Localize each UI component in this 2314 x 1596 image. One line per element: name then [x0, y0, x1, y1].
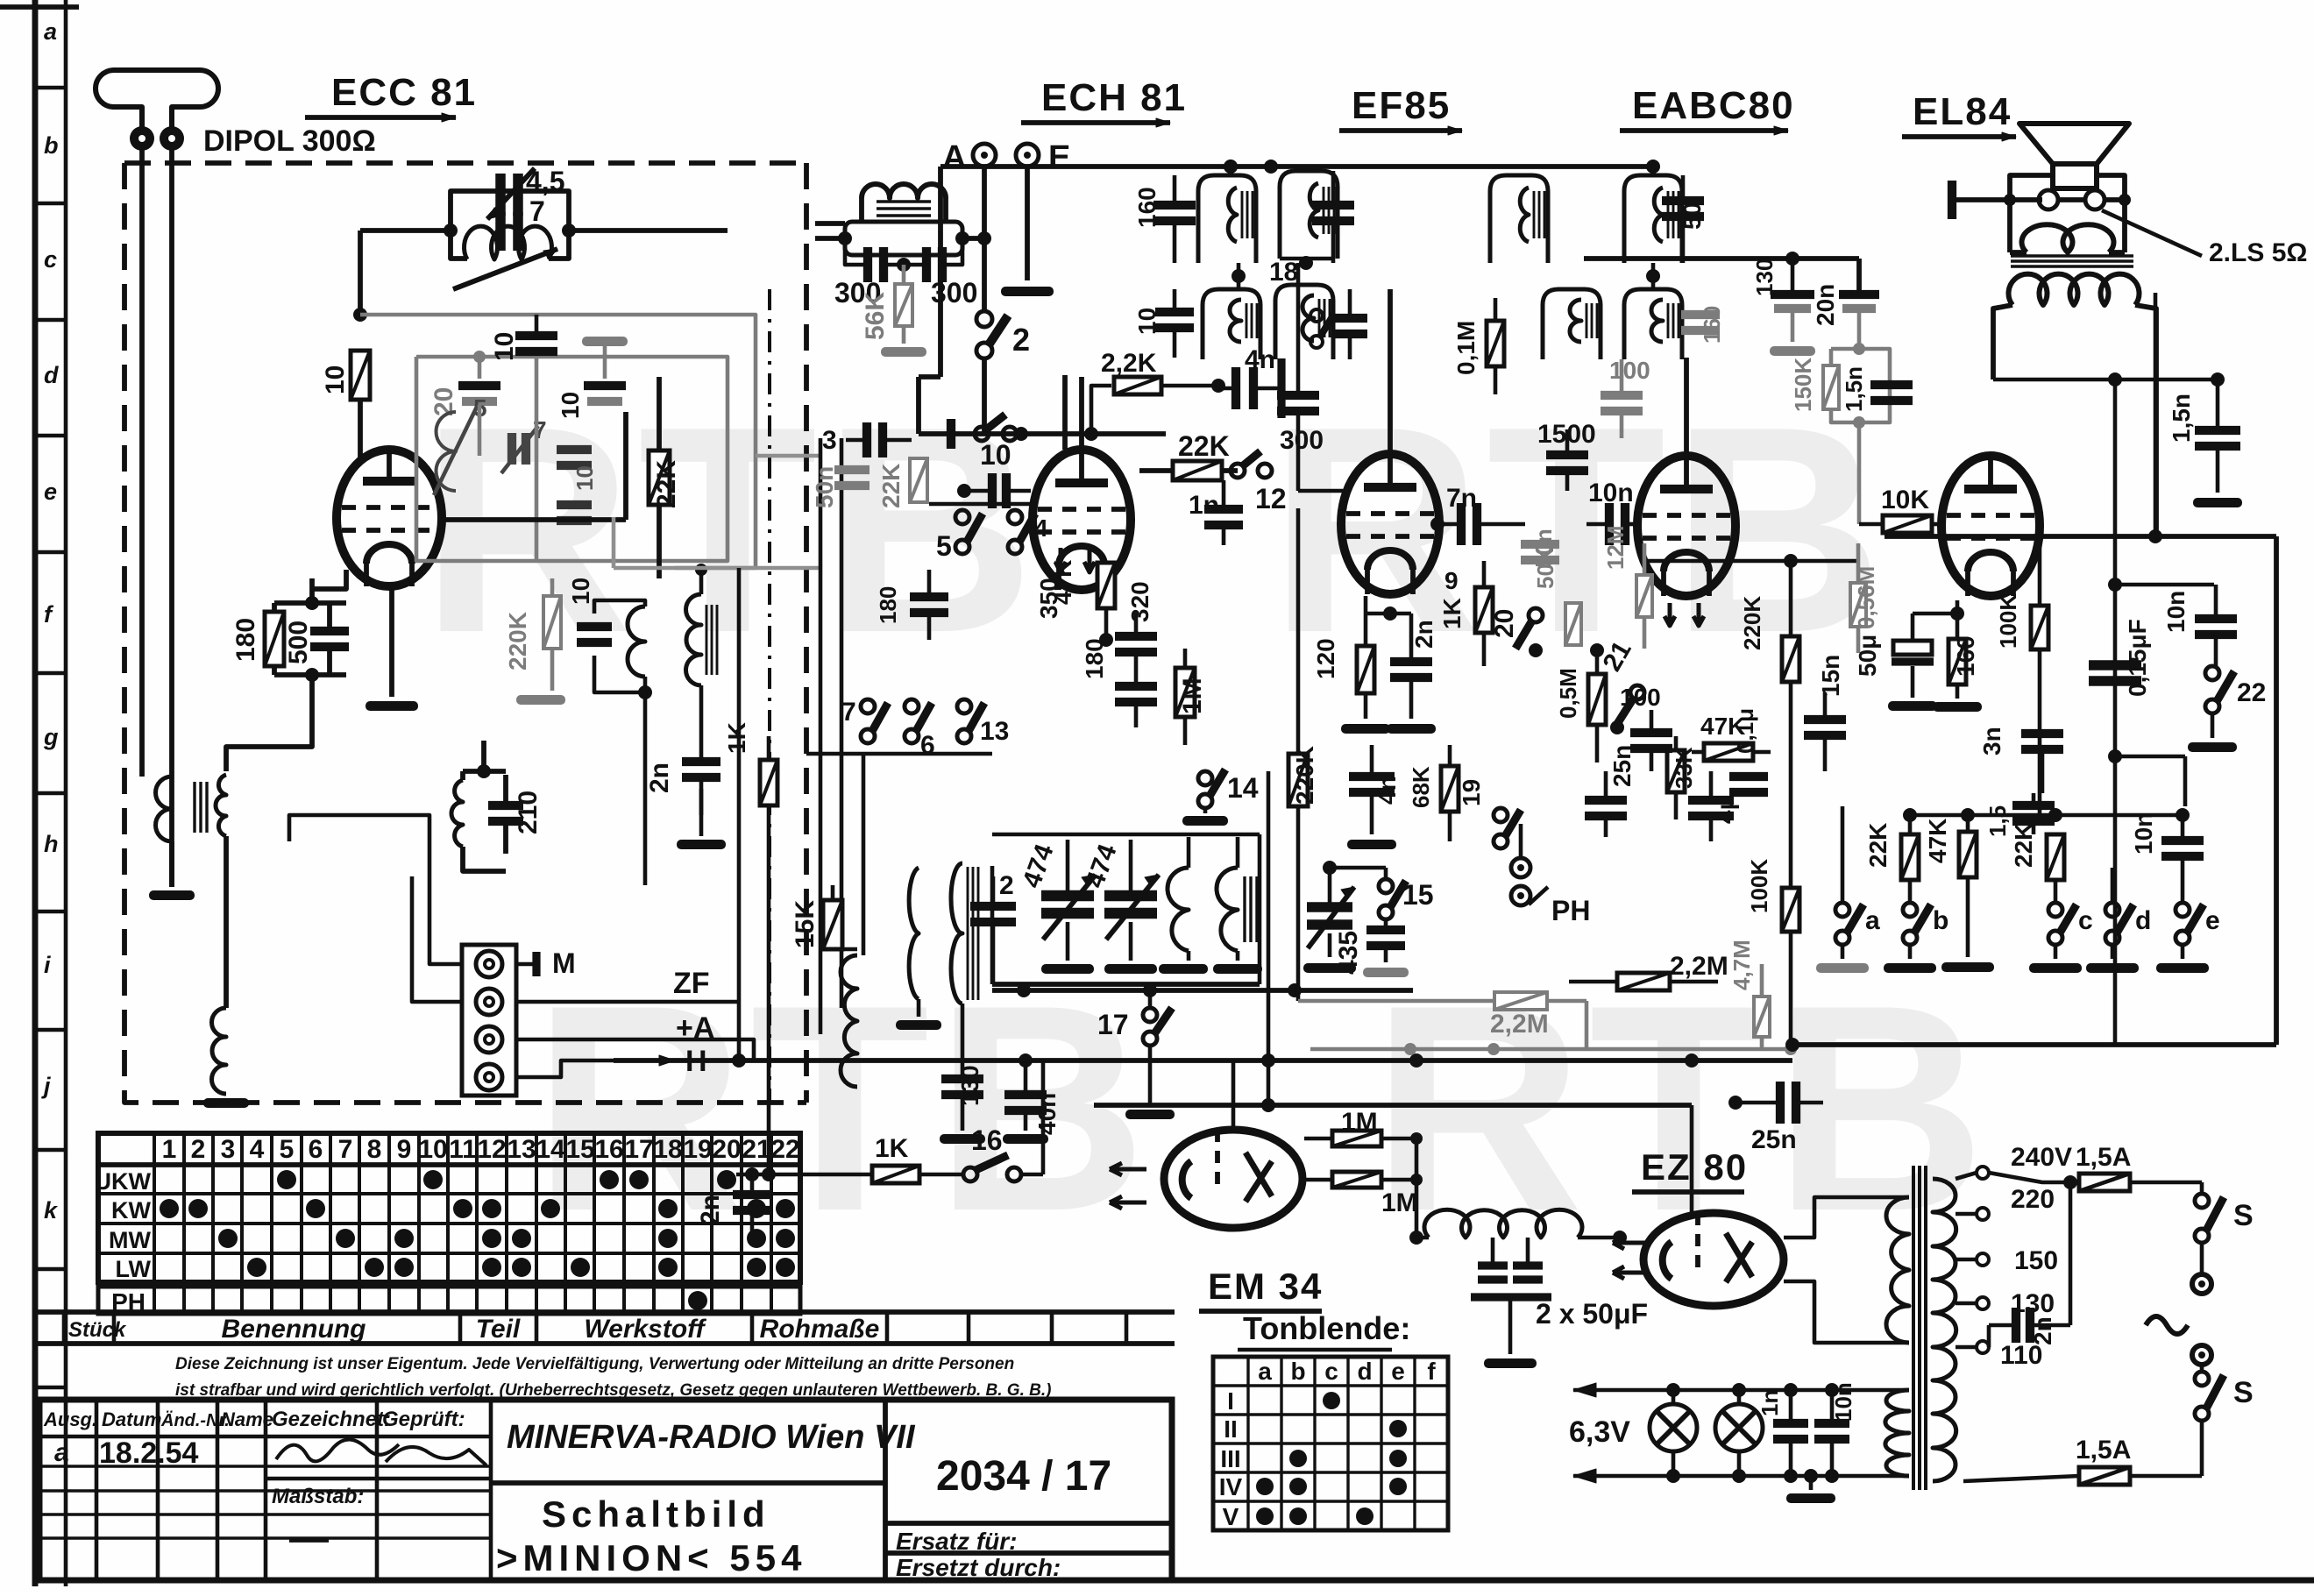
bus 1130 [992, 983, 1413, 997]
svg-text:1,5n: 1,5n [2168, 394, 2195, 443]
svg-text:1M: 1M [1178, 677, 1207, 714]
AM ant coil [862, 184, 946, 216]
ez80 plate loop top [1784, 1197, 1909, 1238]
ez80 to bus [1690, 1105, 1694, 1213]
heater ground [1786, 1469, 1835, 1503]
AM ant box [815, 167, 991, 311]
cap 2n ef [1366, 606, 1437, 734]
dashbox bottom stub [0, 0, 1, 1]
svg-text:1,5A: 1,5A [2076, 1436, 2131, 1465]
svg-text:0,5M: 0,5M [1555, 668, 1581, 719]
svg-text:Änd.-Nr.: Änd.-Nr. [160, 1410, 230, 1430]
IFT wires top [1224, 160, 1310, 289]
svg-text:EABC80: EABC80 [1632, 84, 1795, 127]
svg-text:EM 34: EM 34 [1208, 1266, 1323, 1307]
label H arrow [614, 1045, 707, 1078]
svg-text:7: 7 [841, 698, 856, 727]
gray 50n cap [811, 466, 870, 508]
resistor 1K ef [1438, 561, 1493, 666]
svg-text:d: d [1357, 1358, 1372, 1385]
svg-text:2,2M: 2,2M [1490, 1010, 1549, 1039]
svg-text:2034 / 17: 2034 / 17 [936, 1453, 1111, 1500]
tube ECC81 [337, 450, 442, 586]
resistor 22K top [1139, 430, 1238, 480]
svg-text:10n: 10n [1588, 479, 1634, 507]
svg-text:20n: 20n [1812, 284, 1839, 326]
gray 50n 50K [1521, 528, 1581, 645]
tube EL84 [1941, 456, 2040, 596]
svg-text:3: 3 [221, 1135, 236, 1164]
svg-text:E: E [1048, 139, 1070, 176]
svg-text:5: 5 [280, 1135, 295, 1164]
res 160 el [1933, 614, 1982, 712]
svg-text:6,3V: 6,3V [1569, 1415, 1630, 1449]
tube ECH81 [1033, 450, 1131, 590]
svg-text:>MINION< 554: >MINION< 554 [496, 1537, 806, 1578]
capacitor 500 [284, 603, 349, 675]
svg-text:14: 14 [1227, 772, 1259, 804]
cap 300 a [834, 238, 904, 309]
coil 210 [451, 771, 463, 847]
res 1M b [1304, 1172, 1423, 1217]
svg-text:h: h [44, 831, 59, 857]
black cap 10b [490, 315, 557, 361]
svg-text:EL84: EL84 [1913, 90, 2012, 133]
dipole terminal 1 [130, 126, 154, 151]
svg-text:22K: 22K [652, 460, 681, 508]
osc coil arrow [453, 226, 557, 289]
switch 20 [1490, 608, 1543, 657]
ecc81 cathode wire [312, 570, 346, 589]
IFT1 coil b [1280, 171, 1354, 270]
tank 210 [456, 771, 529, 850]
svg-text:2n: 2n [1410, 620, 1437, 649]
svg-text:2n: 2n [645, 763, 674, 793]
ef85 plate wire [1388, 289, 1393, 454]
tube EZ80 [1643, 1213, 1784, 1306]
IFT3 coil a [1624, 175, 1706, 263]
cap 20n el [1812, 284, 1879, 355]
cap 2n ukw [645, 727, 720, 815]
svg-text:4,7M: 4,7M [1728, 940, 1755, 990]
svg-text:25n: 25n [1608, 745, 1636, 787]
cap 180 pair [1081, 614, 1157, 727]
svg-text:2,2K: 2,2K [1101, 349, 1157, 378]
res 1M a [1304, 1108, 1423, 1146]
resistor 120 [1312, 596, 1390, 734]
cap 100 gray [1601, 357, 1650, 438]
svg-text:Maßstab:: Maßstab: [272, 1485, 364, 1508]
svg-text:17: 17 [624, 1135, 653, 1164]
gray wires ZF [479, 357, 536, 561]
cap 1,5n right [2168, 372, 2242, 507]
svg-text:14: 14 [536, 1135, 565, 1164]
bus 1261 [1094, 1098, 1692, 1112]
svg-text:320: 320 [1126, 581, 1153, 622]
svg-text:10n: 10n [2130, 812, 2157, 855]
svg-text:S: S [2233, 1376, 2254, 1409]
svg-text:e: e [2205, 906, 2220, 935]
svg-text:LW: LW [116, 1256, 152, 1282]
svg-text:7n: 7n [1446, 484, 1477, 513]
el84 cath wires [1913, 600, 1964, 621]
res 2,2M a [1298, 911, 1586, 1049]
svg-text:Benennung: Benennung [222, 1315, 366, 1344]
capacitor 210 [488, 775, 543, 854]
svg-text:0,1M: 0,1M [1452, 321, 1480, 375]
svg-text:Teil: Teil [476, 1315, 521, 1344]
svg-text:100K: 100K [1746, 859, 1772, 913]
svg-text:MINERVA-RADIO Wien VII: MINERVA-RADIO Wien VII [507, 1419, 916, 1456]
cap 40n [1003, 1053, 1061, 1144]
out trafo primary [2009, 274, 2140, 305]
svg-text:a: a [1258, 1358, 1272, 1385]
svg-text:15: 15 [565, 1135, 594, 1164]
svg-text:2: 2 [191, 1135, 206, 1164]
svg-text:220K: 220K [1291, 746, 1318, 805]
svg-text:25n: 25n [1751, 1125, 1797, 1154]
switch 17 [1097, 990, 1175, 1119]
svg-text:3: 3 [822, 426, 837, 455]
wire 180 down [226, 708, 312, 771]
eabc plate wire [1684, 358, 1689, 456]
switch 5 [936, 510, 983, 562]
switch 2 [976, 311, 1030, 358]
ez80 arrows [1613, 1237, 1646, 1279]
svg-text:4: 4 [250, 1135, 265, 1164]
connector pin 3 [476, 1026, 502, 1053]
svg-text:4,5: 4,5 [526, 166, 564, 197]
svg-text:50K: 50K [1532, 547, 1558, 589]
svg-text:Name: Name [221, 1408, 273, 1430]
svg-text:2n: 2n [2029, 1316, 2056, 1345]
label EL84 [1902, 90, 2016, 141]
svg-text:b: b [44, 132, 59, 159]
ground ecc81 [366, 585, 418, 711]
connector pin 4 [476, 1064, 502, 1090]
IFT2 coil b [1269, 258, 1367, 359]
label 6,3V [1569, 1415, 1630, 1449]
svg-text:2.LS 5Ω: 2.LS 5Ω [2209, 238, 2307, 267]
svg-text:S: S [2233, 1199, 2254, 1232]
trimmer 435 [1303, 861, 1363, 975]
wire y640 [1644, 554, 1858, 568]
speaker leader 2.LS [2102, 210, 2307, 267]
svg-text:12M: 12M [1602, 525, 1629, 570]
svg-text:210: 210 [514, 791, 543, 834]
gray trimmer 7 [501, 416, 547, 473]
svg-text:Ersetzt durch:: Ersetzt durch: [896, 1554, 1061, 1581]
svg-text:g: g [43, 724, 59, 750]
voice coil wire [2058, 194, 2131, 206]
svg-text:ECC 81: ECC 81 [331, 71, 477, 114]
svg-text:20: 20 [1490, 609, 1519, 638]
connector left wires [289, 815, 462, 1002]
cap 1n [1189, 480, 1243, 545]
legal notice [175, 1355, 1051, 1400]
grid cap ech [957, 473, 1031, 508]
cap 130 el [1751, 259, 1815, 356]
resistor 180 [231, 603, 284, 675]
svg-text:PH: PH [1551, 895, 1590, 926]
svg-text:II: II [1224, 1415, 1238, 1443]
ech mid grounds [677, 789, 726, 849]
resistor 47K ech [1049, 560, 1115, 647]
wire 10 to tube [358, 400, 363, 465]
svg-text:Werkstoff: Werkstoff [584, 1315, 706, 1344]
svg-text:500: 500 [284, 621, 313, 664]
svg-text:1K: 1K [723, 722, 750, 754]
terminal E [1016, 139, 1070, 176]
svg-text:1M: 1M [1341, 1108, 1378, 1137]
gray res 220K ukw [504, 578, 565, 705]
svg-text:10: 10 [571, 465, 598, 491]
svg-text:EZ 80: EZ 80 [1641, 1146, 1748, 1188]
wire 435 sw15 [1330, 868, 1386, 879]
svg-text:150K: 150K [1790, 358, 1816, 412]
cap 10n r1 [2162, 585, 2237, 666]
svg-text:UKW: UKW [95, 1168, 152, 1195]
IFT2 coil a [1133, 289, 1260, 359]
svg-text:240V: 240V [2011, 1143, 2072, 1172]
out trafo secondary [2010, 221, 2125, 252]
elko 2x50 [1471, 1238, 1648, 1368]
cap 130 [940, 1004, 985, 1144]
cap 180b [875, 570, 948, 640]
gang box [992, 834, 1260, 984]
svg-text:b: b [1290, 1358, 1305, 1385]
osc coil b [1213, 837, 1262, 974]
fuse bottom [1963, 1436, 2202, 1485]
dipole terminal 2 [160, 126, 184, 151]
svg-text:22K: 22K [1864, 823, 1892, 868]
svg-text:1: 1 [162, 1135, 177, 1164]
resistor 56K gray [861, 265, 926, 357]
mains terminal 2 [2192, 1345, 2211, 1365]
label EF85 [1339, 84, 1462, 135]
capacitor 7 [500, 212, 518, 251]
svg-text:68K: 68K [1408, 766, 1434, 808]
cap 0,1u [1729, 708, 1768, 792]
switch d [2086, 868, 2151, 973]
cap 10n e [2130, 812, 2204, 903]
switch 22 [2188, 666, 2266, 752]
switch 15 [1379, 879, 1434, 927]
gray cap 10a [557, 337, 628, 419]
connector pin 2 [476, 989, 502, 1015]
cap 1n heater [1757, 1390, 1808, 1476]
svg-text:300: 300 [1280, 426, 1324, 455]
svg-text:d: d [44, 362, 59, 388]
svg-text:11: 11 [449, 1135, 477, 1164]
svg-text:350: 350 [1035, 578, 1062, 619]
pt core [1913, 1166, 1926, 1490]
wire A down2 [643, 692, 648, 885]
svg-text:e: e [1391, 1358, 1405, 1385]
label EM34 [1199, 1266, 1323, 1311]
svg-text:10K: 10K [1881, 486, 1929, 514]
cap 25n eabc [1585, 745, 1636, 837]
switch b [1884, 903, 1948, 973]
out trafo core [2011, 256, 2133, 266]
svg-text:180: 180 [1081, 638, 1108, 679]
svg-text:4μ: 4μ [1712, 795, 1739, 824]
lamp 2 [1715, 1390, 1763, 1476]
UKW unit dashed box [124, 163, 806, 1103]
cap 100b [1620, 684, 1672, 771]
svg-text:EF85: EF85 [1352, 84, 1451, 127]
svg-text:c: c [2078, 906, 2093, 935]
cap 0,15 [2089, 619, 2151, 697]
svg-text:8: 8 [367, 1135, 382, 1164]
bus 1210 [614, 1053, 1792, 1068]
vertical 1215 [984, 375, 1065, 450]
svg-text:130: 130 [956, 1065, 983, 1106]
osc tank box [451, 191, 569, 259]
label 4,5 [526, 166, 564, 197]
svg-text:10: 10 [490, 332, 519, 361]
cap 4n top [1218, 345, 1281, 418]
svg-text:2 x 50μF: 2 x 50μF [1536, 1298, 1648, 1330]
svg-text:160: 160 [1952, 635, 1979, 677]
svg-text:ECH 81: ECH 81 [1041, 76, 1187, 119]
svg-text:V: V [1223, 1503, 1239, 1530]
svg-text:e: e [44, 479, 57, 505]
res 100K eabc [1746, 859, 1799, 1045]
ech plate wire [1065, 377, 1082, 450]
switch 16 [919, 1060, 1043, 1181]
wire A down [0, 0, 1, 1]
gray 22K res [877, 458, 927, 508]
switch 13 [957, 699, 1009, 746]
vertical 1073 [919, 167, 941, 377]
svg-text:160: 160 [1133, 187, 1161, 228]
resistor 15K [791, 885, 842, 949]
gray bus AVC [1310, 1043, 1797, 1055]
gray cap pair 10 [557, 450, 598, 521]
res 33K [1667, 736, 1697, 819]
resistor 22K (ecc) [649, 377, 681, 578]
svg-text:20: 20 [712, 1135, 741, 1164]
antenna coil ground [149, 836, 226, 900]
res 22K a [1864, 815, 1919, 903]
svg-text:435: 435 [1334, 931, 1363, 975]
top bus A [941, 160, 1653, 174]
svg-text:22K: 22K [1178, 430, 1230, 462]
cap 10n eabc [1586, 479, 1637, 545]
res 10K [1859, 486, 1943, 533]
switch 14 [1182, 770, 1259, 826]
svg-text:0,1μ: 0,1μ [1732, 708, 1758, 754]
svg-text:Diese Zeichnung ist unser Eige: Diese Zeichnung ist unser Eigentum. Jede… [175, 1355, 1014, 1373]
svg-text:12: 12 [1255, 483, 1287, 514]
svg-text:6: 6 [309, 1135, 323, 1164]
PH jacks [1511, 824, 1590, 926]
wire y860 [732, 568, 992, 1068]
svg-text:Ausg.: Ausg. [43, 1408, 97, 1430]
svg-text:19: 19 [1458, 779, 1485, 806]
ez80 plate wire [1784, 1234, 1863, 1259]
svg-text:15: 15 [1402, 879, 1434, 911]
lower coil [203, 885, 249, 1108]
svg-text:16: 16 [971, 1124, 1003, 1156]
svg-text:12: 12 [477, 1135, 506, 1164]
svg-text:Rohmaße: Rohmaße [760, 1315, 880, 1344]
svg-text:18.2.54: 18.2.54 [99, 1436, 199, 1470]
svg-text:A: A [942, 139, 966, 176]
svg-text:47K: 47K [1924, 819, 1951, 863]
svg-text:Tonblende:: Tonblende: [1243, 1310, 1410, 1346]
connector box [462, 945, 516, 1096]
vertical 1447 [1267, 771, 1271, 1105]
svg-text:50μ: 50μ [1854, 635, 1881, 677]
res 220K eabc [1739, 561, 1799, 887]
trimmer 474 b [1081, 840, 1159, 974]
svg-text:10: 10 [567, 578, 594, 605]
svg-text:19: 19 [683, 1135, 712, 1164]
switch S top [2195, 1182, 2254, 1273]
res 1K em [872, 1134, 919, 1183]
svg-text:10: 10 [1133, 308, 1161, 335]
pt HT secondary [1886, 1197, 1909, 1343]
em34 1M verticals [1415, 1138, 1419, 1238]
svg-text:13: 13 [507, 1135, 536, 1164]
el84 grid bus [1584, 252, 1859, 293]
ech mid coils [896, 863, 978, 1030]
watermark [421, 365, 1991, 1272]
wire osc left drop [353, 231, 367, 322]
wire sw2 down [982, 359, 987, 434]
svg-text:IV: IV [1219, 1473, 1243, 1500]
switch a [1816, 806, 1880, 973]
wire gang top [1081, 819, 1189, 840]
cap 4u [1688, 771, 1739, 841]
svg-text:5: 5 [936, 530, 952, 562]
svg-text:2,2M: 2,2M [1670, 952, 1728, 981]
bus mid [919, 377, 1166, 441]
feedback loop [1792, 1045, 1793, 1060]
em34 input arrows [1110, 1163, 1146, 1209]
cap 50u [1854, 614, 1937, 711]
gray res 12M [1602, 525, 1652, 649]
label M [536, 947, 576, 979]
osc big coil [833, 949, 857, 1087]
wire E ground [1001, 167, 1054, 296]
res 2,2K [1091, 349, 1225, 434]
IFT1 coil a [1133, 175, 1256, 263]
cap 7n [1430, 484, 1525, 545]
svg-text:d: d [2135, 906, 2151, 935]
voice coil terminal 1 [2039, 190, 2058, 209]
switch 4 [1008, 510, 1048, 554]
svg-text:1K: 1K [1438, 598, 1466, 629]
svg-text:1K: 1K [875, 1134, 909, 1163]
svg-text:b: b [1933, 906, 1948, 935]
gray coil 5 [434, 394, 487, 495]
svg-text:M: M [552, 947, 576, 979]
svg-text:Stück: Stück [68, 1318, 127, 1342]
svg-text:Schaltbild: Schaltbild [542, 1493, 770, 1535]
lamp 1 [1650, 1390, 1697, 1476]
svg-text:22K: 22K [2010, 823, 2037, 868]
switch 7 [841, 698, 888, 743]
label DIPOL 300 [203, 124, 376, 158]
filter choke [1409, 1209, 1627, 1245]
label 350 [1035, 578, 1062, 619]
cathode network box [274, 578, 346, 708]
pt primary winding [1933, 1179, 1956, 1481]
svg-text:10: 10 [418, 1135, 447, 1164]
